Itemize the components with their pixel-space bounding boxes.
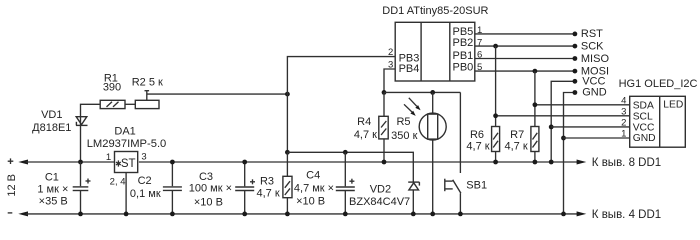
junction R6 top rail (493, 160, 498, 165)
wire R2 wiper to PB3 node (147, 93, 288, 95)
svg-text:ST: ST (121, 158, 136, 170)
svg-text:SCL: SCL (633, 111, 653, 122)
wire bottom rail (common) (26, 213, 578, 215)
wire VD1 to R1 (81, 104, 101, 162)
wire PB3 node down to filter node (286, 94, 288, 152)
svg-text:R7: R7 (510, 129, 524, 141)
svg-text:Д818Е1: Д818Е1 (32, 122, 71, 134)
svg-text:1: 1 (106, 152, 111, 163)
svg-text:100 мк ×: 100 мк × (189, 183, 232, 195)
junction R5 top (430, 90, 435, 95)
svg-text:GND: GND (633, 133, 656, 144)
junction DA1 bottom rail (124, 212, 129, 217)
resistor R3 (257, 152, 292, 214)
svg-text:×35 В: ×35 В (39, 196, 68, 208)
resistor R7 (505, 71, 539, 162)
wire top rail left section (26, 161, 115, 163)
junction VD1/C1 top rail (78, 160, 83, 165)
wire filter node to VD2 (287, 152, 413, 182)
resistor R1 (100, 73, 125, 109)
svg-text:R3: R3 (260, 176, 274, 188)
capacitor C2 (130, 162, 182, 214)
svg-text:К выв. 8 DD1: К выв. 8 DD1 (592, 157, 661, 169)
junction SB1 bottom rail (458, 212, 463, 217)
node К выв. 8 DD1 (577, 157, 662, 169)
wire DA1 ground lead pins 2,4 (125, 173, 127, 214)
junction C1 bottom rail (78, 212, 83, 217)
IC DD1 ATtiny85 (382, 5, 488, 81)
wire R1 to R2 (125, 103, 135, 105)
svg-text:VD2: VD2 (370, 183, 391, 195)
svg-text:1: 1 (621, 129, 626, 140)
svg-text:3: 3 (388, 60, 393, 71)
node К выв. 4 DD1 (577, 209, 662, 221)
trimmer resistor R2 (132, 76, 163, 108)
svg-text:SB1: SB1 (466, 180, 487, 192)
photoresistor R5 (391, 92, 446, 213)
wire VCC to HG1 (551, 126, 629, 128)
wire GND (561, 87, 607, 217)
junction filter node (285, 150, 290, 155)
junction VD2 bottom rail (411, 212, 416, 217)
resistor R4 (354, 92, 388, 162)
junction R3 bottom rail (285, 212, 290, 217)
svg-text:350 к: 350 к (391, 130, 417, 142)
junction R7 top rail (533, 160, 538, 165)
svg-text:0,1 мк: 0,1 мк (130, 188, 161, 200)
junction C3 top rail (242, 160, 247, 165)
capacitor C1 (37, 162, 90, 214)
wire MISO (475, 53, 610, 65)
zener diode VD2 (349, 182, 419, 214)
wire RST (475, 28, 603, 40)
svg-text:C1: C1 (45, 171, 59, 183)
svg-text:2: 2 (621, 118, 626, 129)
svg-text:12 В: 12 В (6, 174, 18, 197)
junction C2 top rail (170, 160, 175, 165)
zener diode VD1 (32, 109, 87, 134)
svg-text:VCC: VCC (633, 122, 655, 133)
wire PB3 node to DD1 pin 2 (287, 57, 395, 95)
svg-text:LED: LED (663, 100, 683, 111)
svg-text:RST: RST (581, 28, 603, 40)
wire SCK (475, 40, 604, 52)
svg-text:PB1: PB1 (453, 50, 474, 62)
svg-text:PB2: PB2 (453, 37, 474, 49)
svg-text:4,7 к: 4,7 к (505, 141, 528, 153)
junction C3 bottom rail (242, 212, 247, 217)
svg-text:3: 3 (141, 152, 146, 163)
svg-text:PB4: PB4 (399, 63, 420, 75)
OLED module HG1 (619, 78, 698, 147)
pushbutton SB1 (445, 92, 487, 213)
svg-text:4,7 к: 4,7 к (257, 188, 280, 200)
wire SDA (533, 102, 630, 107)
junction C2 bottom rail (170, 212, 175, 217)
wire DD1 pin 3 to PB4 node (384, 69, 395, 92)
svg-text:C3: C3 (199, 171, 213, 183)
power input minus terminal (8, 211, 28, 216)
junction C4 tap (343, 150, 348, 155)
svg-text:R5: R5 (396, 116, 410, 128)
svg-text:R2 5 к: R2 5 к (132, 76, 163, 88)
svg-text:390: 390 (103, 82, 121, 94)
resistor R6 (466, 46, 499, 162)
svg-text:C2: C2 (138, 175, 152, 187)
junction PB4 node (382, 90, 387, 95)
svg-text:К выв. 4 DD1: К выв. 4 DD1 (592, 209, 661, 221)
svg-text:DA1: DA1 (114, 126, 135, 138)
svg-text:4,7 к: 4,7 к (466, 141, 489, 153)
svg-text:4,7 мк ×: 4,7 мк × (294, 182, 334, 194)
svg-text:1 мк ×: 1 мк × (37, 183, 68, 195)
junction PB3 node (285, 92, 290, 97)
svg-text:PB0: PB0 (453, 61, 474, 73)
svg-text:×10 В: ×10 В (296, 195, 325, 207)
junction C4 bottom rail (343, 212, 348, 217)
capacitor C3 (189, 162, 255, 214)
wire PB4 node to R5 and SB1 (384, 91, 460, 93)
svg-text:LM2937IMP-5.0: LM2937IMP-5.0 (87, 138, 167, 150)
svg-text:MISO: MISO (581, 53, 610, 65)
svg-text:3: 3 (621, 107, 626, 118)
wire GND to HG1 (564, 137, 630, 139)
svg-text:DD1 ATtiny85-20SUR: DD1 ATtiny85-20SUR (382, 5, 488, 17)
junction R5 bottom rail (430, 212, 435, 217)
wire SCL (493, 113, 629, 118)
power input plus terminal (8, 158, 28, 164)
junction R4 top rail (382, 160, 387, 165)
svg-text:2: 2 (388, 47, 393, 58)
svg-text:C4: C4 (306, 170, 320, 182)
capacitor C4 (294, 152, 355, 214)
svg-text:SCK: SCK (581, 40, 604, 52)
wire VCC (549, 75, 606, 164)
svg-text:VD1: VD1 (41, 109, 62, 121)
wire MOSI (475, 65, 609, 77)
svg-text:2, 4: 2, 4 (110, 177, 126, 188)
svg-text:R4: R4 (357, 116, 371, 128)
wire top rail right section (+5V) (139, 161, 578, 163)
voltage regulator DA1 (87, 126, 167, 188)
svg-text:BZX84C4V7: BZX84C4V7 (349, 196, 410, 208)
svg-text:HG1 OLED_I2C: HG1 OLED_I2C (619, 78, 698, 90)
svg-text:×10 В: ×10 В (194, 196, 223, 208)
svg-text:SDA: SDA (633, 100, 654, 111)
svg-text:GND: GND (582, 87, 607, 99)
svg-text:R6: R6 (470, 129, 484, 141)
svg-text:4,7 к: 4,7 к (354, 129, 377, 141)
svg-text:4: 4 (621, 96, 626, 107)
